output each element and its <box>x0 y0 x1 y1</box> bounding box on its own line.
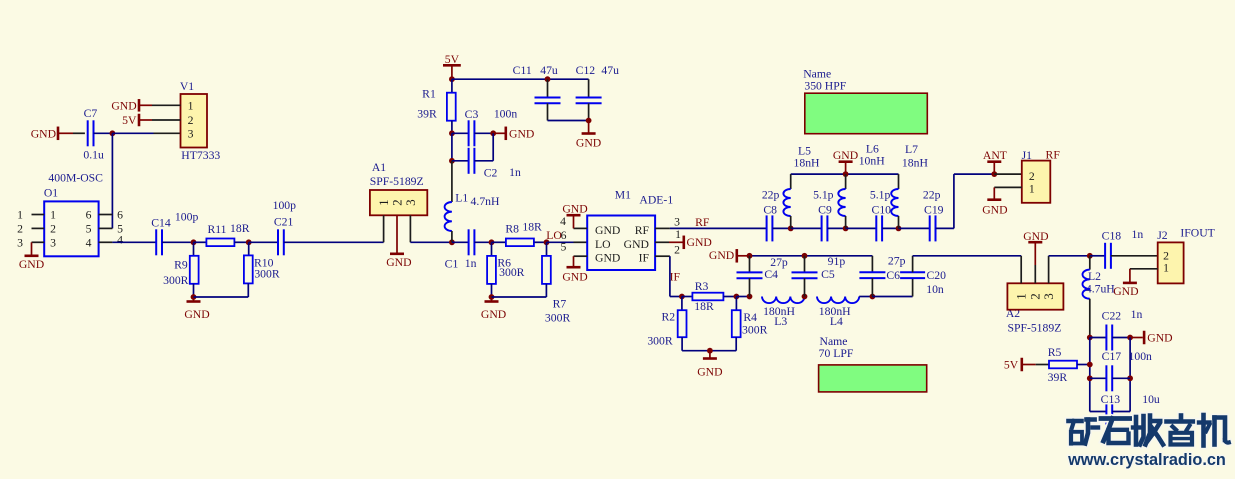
svg-text:5V: 5V <box>445 53 460 66</box>
svg-text:1: 1 <box>1029 183 1035 196</box>
svg-text:GND: GND <box>184 308 209 321</box>
svg-text:18R: 18R <box>522 221 542 234</box>
svg-text:O1: O1 <box>44 187 58 200</box>
svg-text:Name: Name <box>803 67 831 80</box>
svg-text:C19: C19 <box>924 204 944 217</box>
svg-text:4.7uH: 4.7uH <box>1086 283 1115 296</box>
svg-text:A1: A1 <box>372 161 386 174</box>
svg-text:V1: V1 <box>180 80 194 93</box>
svg-text:1: 1 <box>17 209 23 222</box>
svg-text:47u: 47u <box>601 64 619 77</box>
svg-text:2: 2 <box>50 222 56 235</box>
svg-text:4: 4 <box>86 236 92 249</box>
svg-text:1: 1 <box>188 99 194 112</box>
svg-text:400M-OSC: 400M-OSC <box>48 172 103 185</box>
svg-text:1: 1 <box>1014 293 1029 300</box>
svg-text:SPF-5189Z: SPF-5189Z <box>1007 321 1061 334</box>
svg-text:2: 2 <box>17 222 23 235</box>
svg-text:R7: R7 <box>553 297 567 310</box>
svg-text:70 LPF: 70 LPF <box>819 347 854 360</box>
svg-text:GND: GND <box>697 365 722 378</box>
svg-text:IF: IF <box>639 252 650 265</box>
svg-text:C22: C22 <box>1102 310 1122 323</box>
svg-text:L6: L6 <box>866 143 879 156</box>
svg-text:3: 3 <box>1041 293 1056 300</box>
svg-text:Name: Name <box>820 335 848 348</box>
svg-text:3: 3 <box>188 128 194 141</box>
svg-text:27p: 27p <box>888 254 906 267</box>
svg-text:LO: LO <box>595 238 611 251</box>
svg-text:GND: GND <box>1147 332 1172 345</box>
svg-text:GND: GND <box>509 128 534 141</box>
svg-text:100n: 100n <box>1129 350 1153 363</box>
svg-text:100n: 100n <box>494 107 518 120</box>
svg-text:47u: 47u <box>540 64 558 77</box>
svg-text:RF: RF <box>1046 148 1061 161</box>
svg-text:R3: R3 <box>695 280 709 293</box>
svg-text:4.7nH: 4.7nH <box>471 195 500 208</box>
svg-text:C3: C3 <box>465 108 479 121</box>
svg-text:L2: L2 <box>1088 270 1101 283</box>
svg-text:R4: R4 <box>743 311 757 324</box>
svg-text:300R: 300R <box>647 335 673 348</box>
svg-text:5V: 5V <box>1004 359 1019 372</box>
svg-text:2: 2 <box>674 244 680 257</box>
svg-text:C4: C4 <box>764 268 778 281</box>
svg-text:IF: IF <box>670 271 681 284</box>
svg-text:ADE-1: ADE-1 <box>639 193 673 206</box>
svg-text:10u: 10u <box>1142 393 1160 406</box>
svg-text:J2: J2 <box>1157 229 1168 242</box>
svg-text:2: 2 <box>188 114 194 127</box>
svg-text:C1: C1 <box>445 257 459 270</box>
svg-text:IFOUT: IFOUT <box>1180 226 1214 239</box>
svg-text:GND: GND <box>595 252 620 265</box>
svg-text:C21: C21 <box>274 216 294 229</box>
svg-text:39R: 39R <box>417 107 437 120</box>
svg-text:HT7333: HT7333 <box>181 149 220 162</box>
svg-text:39R: 39R <box>1048 371 1068 384</box>
svg-text:GND: GND <box>562 271 587 284</box>
svg-text:SPF-5189Z: SPF-5189Z <box>370 175 424 188</box>
svg-text:RF: RF <box>635 224 650 237</box>
svg-text:R2: R2 <box>661 310 675 323</box>
svg-text:GND: GND <box>687 236 712 249</box>
svg-text:C9: C9 <box>818 204 832 217</box>
svg-text:3: 3 <box>403 199 418 206</box>
svg-text:1n: 1n <box>1131 308 1143 321</box>
svg-text:4: 4 <box>560 215 566 228</box>
svg-text:91p: 91p <box>828 255 846 268</box>
svg-text:100p: 100p <box>175 211 199 224</box>
svg-text:GND: GND <box>624 238 649 251</box>
svg-text:5V: 5V <box>122 114 137 127</box>
svg-text:5: 5 <box>86 222 92 235</box>
svg-text:C18: C18 <box>1102 229 1122 242</box>
svg-text:GND: GND <box>1113 285 1138 298</box>
svg-text:22p: 22p <box>762 188 780 201</box>
svg-text:1n: 1n <box>1132 228 1144 241</box>
svg-text:1: 1 <box>1163 262 1169 275</box>
svg-text:GND: GND <box>709 249 734 262</box>
svg-text:6: 6 <box>117 209 123 222</box>
svg-text:GND: GND <box>386 256 411 269</box>
svg-text:C8: C8 <box>763 204 777 217</box>
svg-text:L4: L4 <box>830 315 843 328</box>
svg-text:1n: 1n <box>465 257 477 270</box>
svg-text:C5: C5 <box>821 268 835 281</box>
svg-text:1: 1 <box>50 209 56 222</box>
svg-text:18nH: 18nH <box>902 156 929 169</box>
svg-text:C10: C10 <box>872 204 892 217</box>
svg-text:R11: R11 <box>207 223 226 236</box>
svg-text:22p: 22p <box>923 188 941 201</box>
svg-text:GND: GND <box>982 204 1007 217</box>
svg-text:18R: 18R <box>230 222 250 235</box>
svg-text:R9: R9 <box>174 259 188 272</box>
svg-text:3: 3 <box>50 236 56 249</box>
svg-text:R1: R1 <box>422 88 436 101</box>
svg-text:10n: 10n <box>926 283 944 296</box>
svg-text:5: 5 <box>560 241 566 254</box>
svg-text:18nH: 18nH <box>794 156 821 169</box>
svg-text:C17: C17 <box>1102 350 1122 363</box>
svg-text:1n: 1n <box>509 166 521 179</box>
svg-text:C2: C2 <box>484 166 498 179</box>
svg-text:GND: GND <box>481 308 506 321</box>
svg-text:R5: R5 <box>1048 346 1062 359</box>
svg-text:2: 2 <box>1029 170 1035 183</box>
svg-text:GND: GND <box>833 149 858 162</box>
svg-text:C14: C14 <box>151 216 171 229</box>
svg-text:LO: LO <box>546 229 562 242</box>
svg-text:300R: 300R <box>742 324 768 337</box>
svg-text:C6: C6 <box>886 269 900 282</box>
svg-text:www.crystalradio.cn: www.crystalradio.cn <box>1067 451 1226 469</box>
svg-text:300R: 300R <box>545 311 571 324</box>
svg-text:GND: GND <box>595 224 620 237</box>
svg-text:C11: C11 <box>513 64 532 77</box>
svg-text:GND: GND <box>1023 230 1048 243</box>
svg-text:GND: GND <box>19 258 44 271</box>
svg-text:L3: L3 <box>774 315 787 328</box>
svg-text:ANT: ANT <box>983 149 1007 162</box>
svg-text:L7: L7 <box>905 143 918 156</box>
svg-text:C12: C12 <box>576 64 596 77</box>
svg-text:M1: M1 <box>615 189 631 202</box>
svg-text:GND: GND <box>31 127 56 140</box>
svg-text:2: 2 <box>1163 250 1169 263</box>
svg-text:R8: R8 <box>505 223 519 236</box>
svg-text:C7: C7 <box>84 107 98 120</box>
svg-text:GND: GND <box>576 137 601 150</box>
svg-text:3: 3 <box>17 236 23 249</box>
svg-text:GND: GND <box>111 99 136 112</box>
svg-text:GND: GND <box>562 203 587 216</box>
svg-text:3: 3 <box>674 216 680 229</box>
svg-text:0.1u: 0.1u <box>83 149 104 162</box>
svg-text:C20: C20 <box>926 269 946 282</box>
svg-text:5.1p: 5.1p <box>813 188 834 201</box>
svg-text:10nH: 10nH <box>859 155 886 168</box>
svg-text:100p: 100p <box>273 199 297 212</box>
svg-text:RF: RF <box>695 216 710 229</box>
svg-text:350 HPF: 350 HPF <box>804 80 846 93</box>
svg-text:300R: 300R <box>499 266 525 279</box>
svg-text:18R: 18R <box>694 300 714 313</box>
svg-text:27p: 27p <box>770 256 788 269</box>
svg-text:300R: 300R <box>254 268 280 281</box>
svg-text:1: 1 <box>675 228 681 241</box>
svg-text:4: 4 <box>117 233 123 246</box>
svg-text:C13: C13 <box>1101 393 1121 406</box>
svg-text:300R: 300R <box>163 274 189 287</box>
svg-text:L1: L1 <box>455 192 468 205</box>
svg-text:6: 6 <box>86 209 92 222</box>
svg-text:5.1p: 5.1p <box>870 188 891 201</box>
